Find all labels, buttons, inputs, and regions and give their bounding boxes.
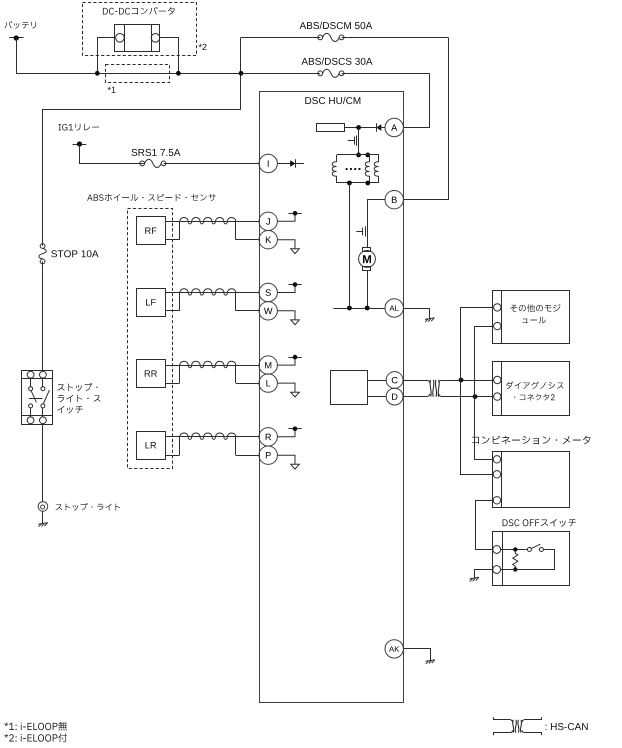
wire meter pin3 to DSC OFF switch (476, 501, 493, 550)
solenoid valve block (337, 154, 379, 156)
wire motor to AL bus (367, 271, 369, 308)
twisted pair RR (179, 365, 181, 383)
wire valve to AL bus (349, 183, 351, 308)
wire DSC OFF loop (501, 550, 555, 570)
label *1 (108, 87, 116, 93)
junction CAN H (459, 378, 464, 383)
pin P (259, 446, 277, 464)
fuse ABS/DSCS 30A (241, 73, 320, 75)
wire stop light to ground (42, 511, 44, 523)
label ・コネクタ2 (514, 394, 555, 401)
wire battery down (16, 38, 18, 73)
wire DC-DC left leg (98, 38, 116, 74)
wheel speed sensor RF (137, 217, 166, 245)
wire CAN L external (403, 396, 428, 398)
fuse SRS1 7.5A (143, 163, 145, 165)
wire RR signal high (165, 365, 259, 367)
dashed box *2 i-ELOOP (83, 3, 197, 56)
junction CAN L (473, 394, 478, 399)
wire IG1 to SRS1 (80, 144, 144, 164)
label stop lamp switch line1 (58, 383, 98, 391)
pin K (259, 231, 277, 249)
other modules box その他のモジュール (493, 291, 570, 344)
wire SRS1 to pin I (164, 163, 260, 165)
battery バッテリ label (5, 21, 37, 29)
wire 50A right drop to node B (403, 37, 448, 199)
label DSC HU/CM (305, 97, 360, 104)
label ABSホイール・スピード・センサ (87, 194, 216, 201)
junction valve top right (365, 153, 370, 158)
wire other module pin2 (475, 327, 494, 397)
ground DSC OFF (470, 577, 480, 579)
wire DC-DC right leg (160, 38, 178, 74)
label コンビネーション・メータ (472, 436, 591, 445)
sensor ground pin P (277, 455, 295, 464)
label HS-CAN (546, 723, 588, 730)
label *2 (199, 44, 207, 50)
wire AL bus (334, 308, 386, 310)
DSC OFF switch box (493, 532, 570, 586)
label footnote *2 (4, 733, 67, 742)
switch SW1 (527, 548, 531, 552)
wire LF signal low (165, 310, 180, 312)
wire LR signal high (165, 436, 259, 438)
sensor ground pin L (277, 383, 295, 392)
twisted pair LR (179, 437, 181, 455)
wire CAN H internal (367, 380, 386, 382)
IG1 relay terminal (73, 144, 87, 146)
label ABS/DSCM 50A (300, 22, 373, 29)
twisted pair LF (179, 293, 181, 311)
combination meter box (493, 452, 570, 508)
pin C (386, 372, 403, 389)
pin B (385, 191, 403, 209)
junction A/mosfet (356, 125, 361, 130)
legend twisted pair symbol (494, 717, 511, 719)
dashed box wheel speed sensors (128, 209, 173, 469)
pin AL (385, 299, 403, 317)
wire pin I internal (277, 163, 304, 165)
wire AK to ground (403, 649, 430, 661)
wire AL to ground (403, 309, 429, 319)
wire node A internal (345, 127, 385, 129)
stop light lamp (38, 502, 48, 512)
junction resistor top (513, 547, 517, 551)
wire DSC OFF internal top (501, 549, 528, 551)
ground AK (426, 660, 436, 662)
wire switch to stop light (42, 424, 44, 502)
label IG1リレー (59, 124, 100, 131)
label DSC OFFスイッチ (503, 519, 576, 527)
wire other module pin1 (461, 308, 494, 381)
fuse ABS/DSCM 50A (241, 37, 320, 39)
wire to STOP fuse (43, 110, 242, 246)
DC-DC converter U1 (115, 25, 160, 52)
junction B+ bus / 50A (239, 71, 244, 76)
label DC-DCコンバータ (103, 7, 175, 15)
sensor ground pin K (277, 240, 295, 249)
junction valve bottom mid (365, 181, 370, 186)
ground AL (425, 318, 435, 320)
junction valve top left (356, 153, 361, 158)
twisted pair RF (179, 221, 181, 239)
junction AL motor (365, 306, 370, 311)
wire node B to pump (368, 200, 386, 227)
battery stub pin M (277, 357, 295, 365)
fuse STOP 10A (40, 244, 45, 249)
battery stub pin S (277, 285, 295, 293)
pin L (259, 374, 277, 392)
sensor ground pin W (277, 311, 295, 320)
wheel speed sensor RR (137, 360, 166, 388)
pin A (385, 118, 403, 136)
pin W (259, 302, 277, 320)
label その他のモジ (510, 304, 560, 312)
junction AL valve (347, 306, 352, 311)
battery stub pin R (277, 429, 295, 437)
junction resistor bottom (513, 567, 517, 571)
mosfet Q1 (358, 128, 360, 155)
junction DC-DC right (176, 71, 181, 76)
junction valve bottom left (347, 181, 352, 186)
diode D1 (290, 160, 295, 166)
diagnosis connector box ダイアグノシス・コネクタ2 (493, 362, 570, 416)
wire DSC OFF pin2 to ground (475, 570, 493, 579)
pin J (259, 212, 277, 230)
pin M (259, 356, 277, 374)
wire CAN L to meter pin1 (475, 397, 493, 460)
junction DC-DC left (95, 71, 100, 76)
wire 30A drop to node A (403, 73, 429, 127)
label SRS1 7.5A (131, 149, 180, 156)
label stop lamp switch line3 (57, 406, 82, 414)
wire battery main B+ bus (16, 73, 241, 75)
label STOP 10A (51, 250, 98, 257)
CAN controller box (331, 371, 368, 405)
pump motor M (363, 248, 371, 252)
wire STOP fuse to stop lamp switch (42, 261, 44, 371)
wire CAN L internal (367, 396, 386, 398)
pin I (259, 154, 277, 172)
twisted pair HS-CAN (428, 381, 430, 383)
mosfet Q2 pump (367, 226, 369, 247)
wire RF signal low (165, 239, 180, 241)
dashed box *1 bypass (106, 65, 170, 83)
wire RR signal low (165, 383, 180, 385)
pin D (386, 388, 403, 405)
diode D2 (376, 123, 378, 132)
resistor R1 (513, 550, 518, 570)
wire 50A left drop (240, 37, 242, 109)
wire CAN H to meter pin2 (461, 380, 493, 475)
ground stop light (38, 523, 48, 525)
label ABS/DSCS 30A (301, 58, 372, 65)
battery stub pin J (277, 213, 295, 221)
pin S (259, 283, 277, 301)
wire RF signal high (165, 221, 259, 223)
stop lamp switch ストップ・ライト・スイッチ (22, 371, 53, 425)
wire LF signal high (165, 292, 259, 294)
wheel speed sensor LF (137, 289, 166, 317)
label stop lamp switch line2 (58, 395, 101, 402)
DSC HU/CM module box (260, 92, 404, 703)
label ダイアグノシス (506, 382, 564, 390)
label ュール (522, 317, 545, 324)
battery terminal (9, 37, 23, 39)
wheel speed sensor LR (137, 432, 166, 460)
pin R (259, 428, 277, 446)
label ストップ・ライト (56, 503, 120, 511)
wire LR signal low (165, 455, 180, 457)
internal component box (317, 124, 345, 132)
label footnote *1 (4, 722, 67, 731)
wire CAN H external (403, 380, 428, 382)
pin AK (385, 640, 403, 658)
